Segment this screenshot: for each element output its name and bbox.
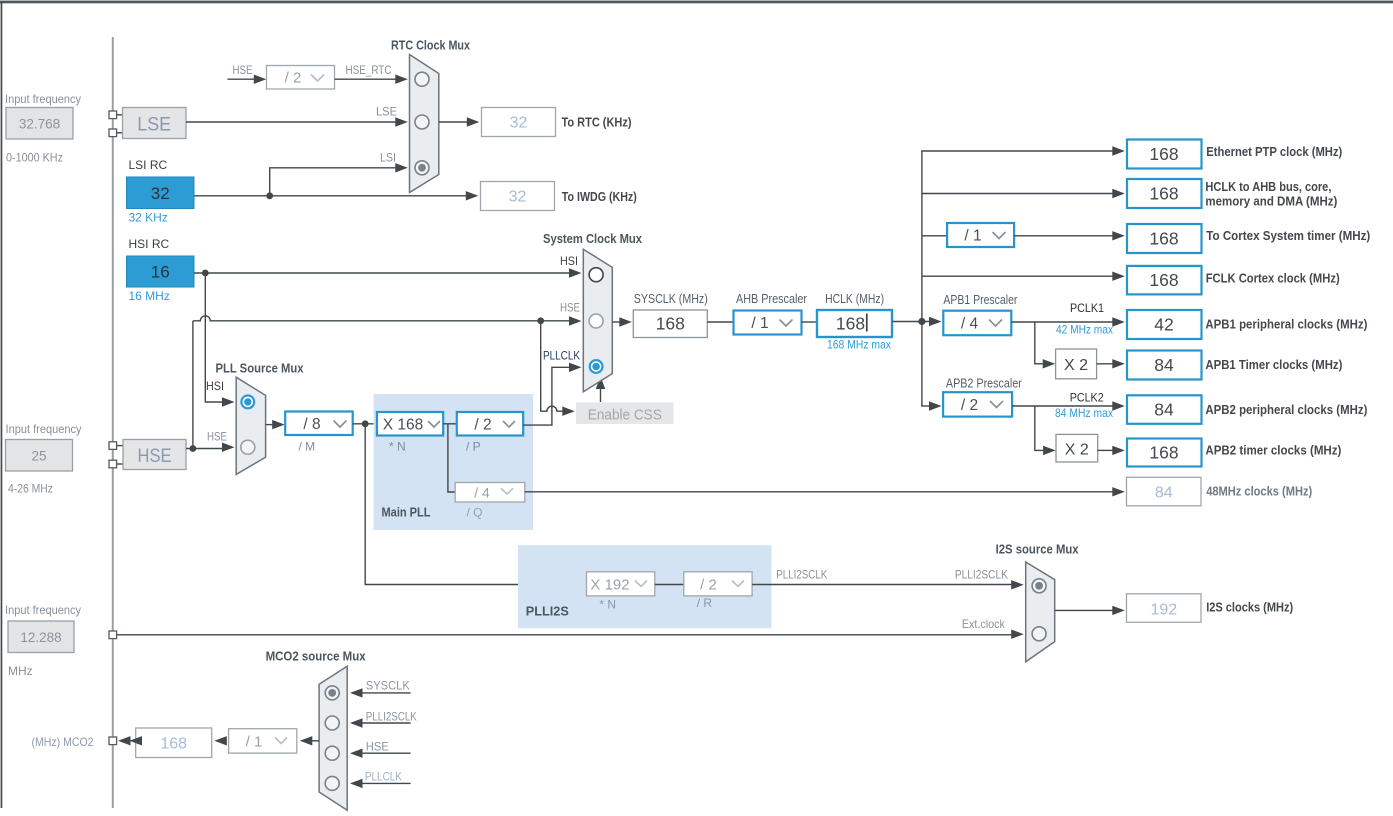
wire cortex combo to box	[1014, 235, 1113, 237]
svg-text:84 MHz max: 84 MHz max	[1055, 406, 1113, 420]
pin handle MCO2	[109, 737, 117, 745]
wire HSE to PLL Source Mux	[186, 448, 223, 450]
svg-text:LSE: LSE	[137, 115, 171, 136]
svg-text:84: 84	[1154, 355, 1174, 375]
combo APB2 /2	[943, 392, 1012, 416]
block X2 APB2 timer	[1056, 434, 1098, 462]
output box To IWDG	[481, 182, 555, 211]
wire Ext.clock from I2S_CKIN pin	[117, 634, 1012, 636]
svg-text:32.768: 32.768	[19, 117, 60, 132]
svg-text:HCLK to AHB bus, core,: HCLK to AHB bus, core,	[1205, 179, 1331, 194]
svg-text:Input frequency: Input frequency	[6, 422, 82, 436]
box FCLK 168	[1127, 266, 1202, 295]
svg-text:APB2 timer clocks (MHz): APB2 timer clocks (MHz)	[1205, 443, 1341, 458]
wire HSI to System Clock Mux	[194, 272, 570, 274]
svg-text:HSI RC: HSI RC	[129, 237, 170, 251]
svg-text:I2S source Mux: I2S source Mux	[996, 542, 1080, 557]
box HCLK AHB 168	[1127, 179, 1202, 208]
svg-text:25: 25	[31, 449, 46, 464]
svg-text:HSE: HSE	[366, 740, 389, 754]
svg-text:/ P: / P	[466, 440, 481, 454]
wire X2 to box APB2	[1098, 449, 1113, 451]
svg-text:PLLCLK: PLLCLK	[365, 770, 402, 784]
wire CSS feed with hop	[541, 321, 563, 411]
input box 25 MHz	[6, 440, 73, 472]
wire HSE stub mco	[352, 752, 411, 754]
svg-text:Enable CSS: Enable CSS	[588, 407, 662, 424]
wire APB2 out	[1012, 405, 1113, 407]
junction HSI	[202, 270, 209, 277]
mux I2S source Mux	[1026, 562, 1055, 662]
wire MCO2 mux output left	[312, 740, 319, 742]
svg-text:42 MHz max: 42 MHz max	[1056, 323, 1113, 337]
svg-text:/ M: / M	[299, 440, 316, 454]
box APB1 peripheral 42	[1127, 310, 1202, 339]
input box 12.288 MHz	[8, 621, 74, 653]
wire row FCLK	[922, 275, 1113, 277]
wire LSI to IWDG arrow	[466, 191, 479, 200]
radio HSE_RTC	[415, 72, 429, 86]
svg-text:X 168: X 168	[383, 417, 424, 434]
button Enable CSS	[576, 403, 674, 425]
svg-text:PLL Source Mux: PLL Source Mux	[216, 361, 305, 376]
svg-text:HSE: HSE	[207, 430, 227, 444]
wire handle stubs to HSE box	[117, 445, 123, 447]
radio PLLI2SCLK mco	[325, 716, 339, 730]
wire HSI down to PLL Source Mux	[205, 273, 223, 402]
junction HSE	[190, 445, 197, 452]
oscillator block LSE	[123, 108, 187, 139]
wire LSE to RTC mux	[186, 121, 396, 123]
svg-text:HSE_RTC: HSE_RTC	[346, 63, 392, 77]
svg-text:/ 2: / 2	[474, 417, 491, 434]
svg-text:32 KHz: 32 KHz	[129, 211, 168, 225]
svg-text:/ 2: / 2	[961, 397, 978, 414]
wire N to P	[443, 423, 457, 425]
svg-text:PLLI2SCLK: PLLI2SCLK	[366, 710, 417, 724]
panel PLLI2S	[518, 545, 772, 628]
mux RTC Clock Mux	[410, 55, 439, 193]
svg-text:32: 32	[509, 189, 527, 206]
wire MCO2 box to pin double arrow	[128, 740, 136, 742]
svg-text:* N: * N	[389, 440, 406, 454]
svg-text:/ 4: / 4	[474, 485, 490, 501]
svg-text:48MHz clocks (MHz): 48MHz clocks (MHz)	[1206, 484, 1312, 499]
svg-text:32: 32	[510, 115, 528, 132]
svg-text:Main PLL: Main PLL	[382, 505, 431, 520]
svg-text:HSE: HSE	[560, 301, 580, 315]
junction HSE to CSS	[537, 317, 544, 324]
junction LSI	[266, 192, 273, 199]
svg-text:SYSCLK: SYSCLK	[366, 679, 410, 693]
svg-text:HSI: HSI	[206, 379, 224, 393]
svg-text:PLLI2SCLK: PLLI2SCLK	[776, 568, 827, 582]
wire APB1 out	[1011, 321, 1113, 323]
svg-text:168: 168	[836, 314, 865, 334]
box SYSCLK value	[633, 310, 707, 338]
wire /1 to MCO2 box	[214, 736, 227, 745]
svg-text:* N: * N	[599, 598, 616, 612]
svg-text:168: 168	[656, 314, 685, 334]
radio LSE	[415, 115, 429, 129]
radio HSE	[241, 440, 255, 454]
combo /2 HSE_RTC divider	[267, 66, 335, 90]
box HCLK value with caret	[817, 310, 892, 337]
svg-text:X 2: X 2	[1064, 357, 1088, 374]
svg-text:Input frequency: Input frequency	[5, 92, 81, 106]
input box 32.768 KHz	[6, 108, 73, 140]
svg-text:To IWDG (KHz): To IWDG (KHz)	[562, 189, 637, 204]
svg-text:/ 4: / 4	[961, 316, 979, 333]
svg-text:12.288: 12.288	[20, 630, 61, 645]
mux PLL Source Mux	[236, 377, 265, 474]
svg-text:memory and DMA (MHz): memory and DMA (MHz)	[1205, 194, 1337, 209]
svg-text:SYSCLK (MHz): SYSCLK (MHz)	[634, 291, 708, 306]
svg-text:168: 168	[1149, 144, 1178, 164]
radio HSI selected blue	[241, 396, 254, 409]
svg-text:16 MHz: 16 MHz	[129, 289, 170, 303]
svg-text:/ 8: / 8	[303, 416, 320, 433]
mux MCO2 source Mux	[319, 666, 347, 810]
svg-text:To RTC (KHz): To RTC (KHz)	[562, 115, 632, 130]
svg-text:/ 2: / 2	[700, 577, 717, 594]
pin handle HSE in	[109, 442, 117, 450]
svg-text:PCLK2: PCLK2	[1070, 391, 1104, 405]
wire HSE_RTC to RTC mux	[335, 78, 397, 80]
svg-text:0-1000 KHz: 0-1000 KHz	[6, 151, 63, 165]
oscillator block HSE	[123, 440, 186, 470]
svg-text:FCLK Cortex clock (MHz): FCLK Cortex clock (MHz)	[1206, 271, 1340, 286]
box APB1 timer 84	[1127, 351, 1202, 380]
svg-text:168 MHz max: 168 MHz max	[827, 338, 891, 352]
wire I2S mux output	[1055, 609, 1113, 611]
svg-text:X 192: X 192	[590, 577, 629, 594]
svg-text:I2S clocks (MHz): I2S clocks (MHz)	[1206, 600, 1293, 615]
radio PLLCLK mco	[325, 776, 339, 790]
input pin rail	[112, 37, 114, 808]
pin handle HSE out	[109, 460, 117, 468]
combo APB1 /4	[943, 311, 1011, 336]
svg-text:APB1 peripheral clocks (MHz): APB1 peripheral clocks (MHz)	[1205, 317, 1367, 332]
wire PLLI2SCLK to I2S mux	[752, 584, 1012, 586]
combo /Q divider /4 disabled	[455, 483, 525, 503]
wire APB2 branch to X2	[1035, 406, 1044, 450]
svg-text:HSE: HSE	[233, 63, 253, 77]
svg-text:AHB Prescaler: AHB Prescaler	[736, 291, 808, 306]
svg-text:HSI: HSI	[560, 254, 578, 268]
oscillator block LSI RC 32	[127, 177, 195, 209]
svg-text:HCLK (MHz): HCLK (MHz)	[825, 291, 884, 306]
wire down to PLLI2S	[365, 424, 586, 585]
wire X2 to box	[1097, 363, 1113, 365]
svg-text:LSI RC: LSI RC	[129, 158, 168, 172]
radio PLLI2SCLK selected	[1032, 579, 1046, 593]
top dark bar	[0, 1, 1393, 3]
pin handle LSE out	[109, 129, 117, 137]
wire row Ethernet	[921, 150, 1113, 152]
svg-text:168: 168	[1149, 229, 1178, 249]
wire AHB to HCLK	[802, 321, 818, 323]
box I2S clocks 192	[1127, 594, 1202, 623]
wire HSE up	[192, 321, 194, 449]
wire RTC mux output	[439, 121, 468, 123]
panel Main PLL	[374, 394, 534, 530]
combo AHB Prescaler /1	[734, 311, 802, 335]
svg-text:Ext.clock: Ext.clock	[962, 617, 1006, 631]
svg-text:HSE: HSE	[138, 446, 172, 467]
wire SYSCLK to AHB	[707, 321, 733, 323]
wire HSE to System Clock Mux with hop	[193, 316, 570, 321]
svg-text:84: 84	[1155, 485, 1173, 502]
wire branch N to Q	[448, 424, 455, 492]
output box To RTC	[482, 108, 556, 137]
wire bus corner to APB2	[921, 405, 930, 407]
wire /M to *N	[353, 423, 377, 425]
svg-text:PLLI2S: PLLI2S	[526, 604, 569, 619]
svg-text:To Cortex System timer (MHz): To Cortex System timer (MHz)	[1206, 228, 1370, 243]
left border	[1, 2, 3, 808]
radio LSI selected	[415, 161, 429, 175]
wire APB1 branch to X2	[1035, 322, 1044, 364]
wire row HCLK AHB	[922, 193, 1113, 195]
svg-text:RTC Clock Mux: RTC Clock Mux	[391, 38, 471, 53]
svg-text:LSE: LSE	[376, 105, 397, 119]
svg-text:84: 84	[1154, 400, 1174, 420]
svg-text:16: 16	[151, 263, 170, 282]
svg-text:APB2 peripheral clocks (MHz): APB2 peripheral clocks (MHz)	[1205, 402, 1367, 417]
svg-text:32: 32	[151, 184, 170, 203]
box 48MHz clocks 84	[1127, 477, 1202, 506]
svg-text:APB1 Timer clocks (MHz): APB1 Timer clocks (MHz)	[1205, 357, 1342, 372]
svg-text:/ 1: / 1	[964, 228, 981, 245]
combo /M divider /8	[285, 412, 353, 436]
wire N to R	[655, 584, 684, 586]
top light edge	[0, 0, 1393, 1]
svg-text:168: 168	[1149, 443, 1178, 463]
combo PLLI2S *N X 192 disabled	[587, 572, 655, 596]
wire HCLK to bus	[892, 321, 930, 323]
svg-text:168: 168	[1149, 184, 1178, 204]
svg-text:APB1 Prescaler: APB1 Prescaler	[943, 292, 1018, 307]
box Cortex timer 168	[1127, 224, 1202, 253]
wire CSS to mux arrow up	[600, 389, 602, 403]
radio Ext.clock	[1032, 627, 1046, 641]
svg-text:192: 192	[1150, 602, 1177, 619]
wire PLL mux output	[266, 424, 273, 426]
wire LSI branch up to RTC mux	[270, 168, 396, 196]
svg-text:Input frequency: Input frequency	[5, 603, 81, 617]
wire PLLCLK stub mco	[352, 782, 411, 784]
svg-text:(MHz) MCO2: (MHz) MCO2	[32, 735, 94, 749]
wire Q to 48MHz clocks	[525, 491, 1113, 493]
box Ethernet PTP 168	[1127, 140, 1202, 169]
wire row Cortex timer	[922, 235, 947, 237]
svg-text:MHz: MHz	[8, 664, 33, 678]
svg-text:4-26 MHz: 4-26 MHz	[8, 482, 53, 496]
radio PLLCLK selected blue	[590, 360, 603, 373]
combo /P divider /2	[457, 412, 523, 436]
box MCO2 value 168	[136, 728, 212, 758]
svg-text:LSI: LSI	[380, 151, 396, 165]
svg-text:/ 1: / 1	[751, 315, 768, 332]
pin handle LSE in	[109, 111, 117, 119]
pin handle I2S_CKIN	[109, 631, 117, 639]
svg-text:PLLCLK: PLLCLK	[543, 349, 580, 363]
mux System Clock Mux	[583, 249, 612, 392]
combo Cortex prescaler /1	[947, 223, 1014, 247]
junction to PLLI2S	[362, 420, 369, 427]
wire LSI from box	[194, 195, 467, 197]
junction HCLK bus	[918, 318, 925, 325]
svg-text:/ Q: / Q	[467, 506, 483, 520]
box APB2 timer 168	[1127, 439, 1202, 467]
svg-text:PLLI2SCLK: PLLI2SCLK	[955, 568, 1008, 582]
combo *N X 168	[377, 412, 443, 436]
svg-text:168: 168	[1149, 270, 1178, 290]
radio HSI sys	[589, 268, 603, 282]
svg-text:APB2 Prescaler: APB2 Prescaler	[946, 376, 1023, 391]
wire HSE stub to RTC divider	[228, 78, 256, 80]
svg-text:42: 42	[1154, 315, 1173, 335]
svg-text:/ 2: / 2	[285, 70, 302, 87]
wire SYSCLK output	[612, 321, 620, 323]
svg-text:MCO2 source Mux: MCO2 source Mux	[266, 649, 367, 664]
svg-text:PCLK1: PCLK1	[1070, 301, 1104, 315]
radio HSE sys	[589, 314, 603, 328]
wire handle stubs to LSE box	[117, 114, 123, 116]
radio SYSCLK selected	[325, 686, 339, 700]
combo MCO2 divider /1 disabled	[229, 729, 297, 753]
svg-text:168: 168	[160, 736, 187, 753]
svg-text:/ 1: / 1	[246, 734, 263, 751]
radio HSE mco	[325, 746, 339, 760]
svg-text:System Clock Mux: System Clock Mux	[543, 231, 643, 246]
block X2 APB1 timer	[1056, 349, 1097, 379]
box APB2 peripheral 84	[1127, 395, 1202, 424]
svg-text:X 2: X 2	[1065, 442, 1089, 459]
wire PLLI2SCLK stub	[352, 722, 411, 724]
wire SYSCLK stub	[352, 692, 411, 694]
svg-text:Ethernet PTP clock (MHz): Ethernet PTP clock (MHz)	[1206, 144, 1342, 159]
wire HCLK bus vertical	[921, 151, 923, 406]
oscillator block HSI RC 16	[127, 256, 195, 287]
svg-text:/ R: / R	[697, 596, 713, 610]
combo PLLI2S /R /2 disabled	[684, 572, 752, 596]
wire P output to PLLCLK	[523, 367, 570, 425]
